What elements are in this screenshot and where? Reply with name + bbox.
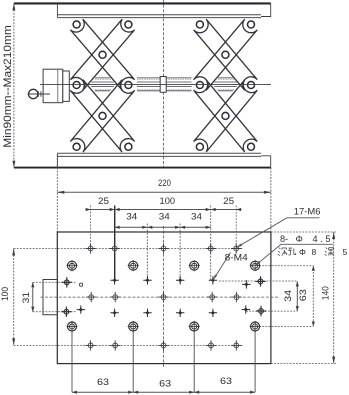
screw center nut <box>160 77 166 93</box>
svg-text:8-: 8- <box>280 234 288 244</box>
bottom rail line 1 <box>57 152 261 154</box>
hole M6 <box>231 292 241 302</box>
pin joint <box>196 21 203 28</box>
link arm <box>70 80 134 152</box>
dim 140 line <box>333 232 335 364</box>
counterbore hole <box>66 260 77 271</box>
counterbore hole <box>250 260 261 271</box>
ext v x210.7 <box>210 206 212 281</box>
row line right pair bottom <box>246 310 297 312</box>
ext v cbore1 <box>71 331 73 392</box>
svg-text:34: 34 <box>126 211 137 221</box>
dim r63 arrows <box>312 266 315 271</box>
hole M6 <box>110 243 120 253</box>
counterbore hole <box>250 321 261 332</box>
dim r63 line <box>312 266 314 327</box>
pin joint <box>196 143 203 150</box>
svg-text:8: 8 <box>312 247 317 257</box>
plan centerline horizontal <box>40 296 278 298</box>
ext v cbore4 <box>254 331 256 392</box>
dim 100 arrows <box>12 249 15 256</box>
hole M6 <box>158 243 168 253</box>
link arm <box>194 19 258 90</box>
hole M4 <box>110 309 118 317</box>
counterbore hole <box>128 321 139 332</box>
ext v cbore3 <box>193 331 195 392</box>
counterbore hole <box>128 260 139 271</box>
screw axis centerline <box>40 84 271 86</box>
hole M6 side <box>61 307 71 317</box>
leader 17-M6 arrow <box>236 244 242 248</box>
hole small <box>242 305 250 313</box>
link arm <box>194 19 258 90</box>
link arm <box>70 80 134 152</box>
svg-text:63: 63 <box>298 289 308 301</box>
dim r34 line <box>296 281 298 311</box>
platform outline <box>57 232 271 364</box>
pin joint <box>248 143 255 150</box>
label counterbore cn (drawn) <box>278 248 287 256</box>
row line cbore bottom <box>259 326 313 328</box>
ext v x114.7 thick <box>114 206 116 281</box>
pin joint <box>73 143 80 150</box>
counterbore hole <box>66 321 77 332</box>
ext v x147.3 <box>146 224 148 281</box>
pin joint <box>125 143 132 150</box>
hole M6 side <box>256 306 266 316</box>
bottom plate right edge <box>261 156 271 168</box>
hole M4 <box>209 309 217 317</box>
small circle hole <box>80 283 83 286</box>
pin joint <box>125 82 132 89</box>
lead screw thread left <box>88 78 117 91</box>
ext rect bottom right <box>271 363 336 365</box>
clamp screw stem <box>38 91 41 96</box>
svg-text:63: 63 <box>220 376 232 386</box>
svg-text:17-M6: 17-M6 <box>294 206 321 217</box>
height dim arrows <box>12 3 15 10</box>
clamp screw knob <box>29 89 38 98</box>
row line left pair bottom <box>33 311 76 313</box>
dim 220 arrows <box>57 191 64 194</box>
leader 17-M6 <box>236 218 319 248</box>
knob flange <box>63 71 70 101</box>
center pivot <box>99 51 106 58</box>
leader counterbore <box>255 244 333 265</box>
svg-text:63: 63 <box>97 377 109 387</box>
dim 63 bottom line <box>72 391 255 393</box>
height dim line <box>13 3 15 167</box>
row line bottom holes <box>14 344 243 346</box>
counterbore hole <box>189 321 200 332</box>
svg-text:220: 220 <box>158 178 171 188</box>
hole small <box>242 280 250 288</box>
hole M6 <box>85 243 95 253</box>
dim row2 arrows <box>115 226 120 229</box>
top plate right edge <box>261 3 271 16</box>
clamp screw tip line <box>28 93 51 95</box>
ext v cbore2 <box>132 331 134 392</box>
top rail line 1 <box>57 14 261 16</box>
hole M6 side <box>255 276 265 286</box>
dim 31 line <box>32 282 34 311</box>
hole M6 <box>231 243 241 253</box>
left notch <box>43 280 57 315</box>
hole M6 <box>206 340 216 350</box>
hole M4 <box>143 276 151 284</box>
svg-text:31: 31 <box>21 292 31 304</box>
hole M4 <box>176 309 184 317</box>
hole M4 <box>209 276 217 284</box>
plan centerline vertical <box>163 226 165 368</box>
svg-text:34: 34 <box>159 211 170 221</box>
bottom plate left step <box>56 153 58 167</box>
ext v x180 <box>179 224 181 281</box>
svg-text:25: 25 <box>98 196 109 206</box>
leader 8-M4 <box>213 253 231 281</box>
hole M6 <box>110 340 120 350</box>
hole M6 <box>206 243 216 253</box>
dim 220 line <box>57 191 271 193</box>
pin joint <box>73 21 80 28</box>
svg-text:140: 140 <box>320 286 330 300</box>
top plate top edge <box>14 2 271 4</box>
svg-text:4.5: 4.5 <box>313 234 334 244</box>
svg-text:100: 100 <box>160 196 176 206</box>
center pivot <box>99 112 106 119</box>
svg-text:8-M4: 8-M4 <box>225 253 248 263</box>
ext v x90.6 <box>90 206 92 249</box>
bottom rail line 2 <box>57 155 261 157</box>
hole M6 <box>158 292 168 302</box>
svg-text:Φ: Φ <box>296 234 303 244</box>
leader 8-M4 arrow <box>213 274 217 280</box>
dim r34 arrows <box>296 281 299 286</box>
centerline vertical <box>163 0 165 170</box>
bottom plate bottom edge <box>14 167 271 169</box>
pin joint <box>73 82 80 89</box>
svg-text:5: 5 <box>343 247 348 257</box>
top plate left step <box>56 3 58 17</box>
center pivot <box>222 51 229 58</box>
knob body <box>43 69 63 103</box>
hole M6 <box>85 340 95 350</box>
svg-text:63: 63 <box>159 379 171 389</box>
svg-text:34: 34 <box>191 211 202 221</box>
dim row1 arrows <box>86 208 91 211</box>
hole M6 side <box>62 277 72 287</box>
link arm <box>194 80 258 152</box>
row line top holes <box>14 248 243 250</box>
row line left pair top <box>33 281 76 283</box>
svg-text:Φ: Φ <box>299 247 306 257</box>
dim 63 arrows <box>72 391 77 394</box>
pin joint <box>196 82 203 89</box>
hole M6 <box>231 340 241 350</box>
center pivot <box>222 112 229 119</box>
link arm <box>70 19 134 90</box>
row line cbore top <box>259 265 313 267</box>
knob seam <box>57 69 59 103</box>
leader counterbore arrow <box>255 261 260 266</box>
dim row2 line <box>115 226 211 228</box>
pin joint <box>248 21 255 28</box>
lead screw thread middle <box>137 77 192 79</box>
link arm <box>70 19 134 90</box>
svg-text:34: 34 <box>283 290 293 302</box>
counterbore hole <box>189 260 200 271</box>
ext line left x57 <box>56 155 58 232</box>
dim 100 line <box>13 249 15 346</box>
hole M6 <box>110 292 120 302</box>
svg-text:100: 100 <box>0 287 10 301</box>
pin joint <box>248 82 255 89</box>
ext rect top right <box>271 231 336 233</box>
svg-text:25: 25 <box>223 196 234 206</box>
hole M4 <box>176 276 184 284</box>
link arm <box>194 80 258 152</box>
hole M6 <box>158 340 168 350</box>
top rail line 2 <box>57 17 261 19</box>
pin joint <box>125 21 132 28</box>
row line right pair top <box>219 280 297 282</box>
hole M4 <box>110 276 118 284</box>
ext line right x271 <box>270 168 272 232</box>
dim 140 arrows <box>332 232 335 239</box>
hole small <box>77 305 85 313</box>
dim 31 arrows <box>31 282 34 287</box>
hole M6 <box>207 292 217 302</box>
ext v x236.2 <box>235 206 237 249</box>
hole M4 <box>143 309 151 317</box>
hole M6 <box>86 292 96 302</box>
svg-text:Min90mm--Max210mm: Min90mm--Max210mm <box>2 25 14 148</box>
lead screw thread right <box>211 78 240 91</box>
dim row1 line <box>86 209 241 211</box>
